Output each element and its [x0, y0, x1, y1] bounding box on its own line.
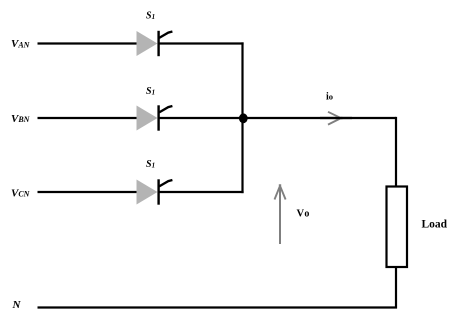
svg-text:io: io: [326, 92, 333, 103]
svg-text:VAN: VAN: [11, 38, 31, 50]
svg-text:S1: S1: [146, 86, 155, 97]
svg-text:N: N: [12, 299, 22, 311]
svg-text:Vo: Vo: [297, 208, 310, 219]
svg-text:VBN: VBN: [11, 113, 31, 125]
svg-text:Load: Load: [422, 219, 448, 231]
svg-text:S1: S1: [146, 10, 155, 21]
svg-text:S1: S1: [146, 159, 155, 170]
svg-text:VCN: VCN: [11, 187, 31, 199]
